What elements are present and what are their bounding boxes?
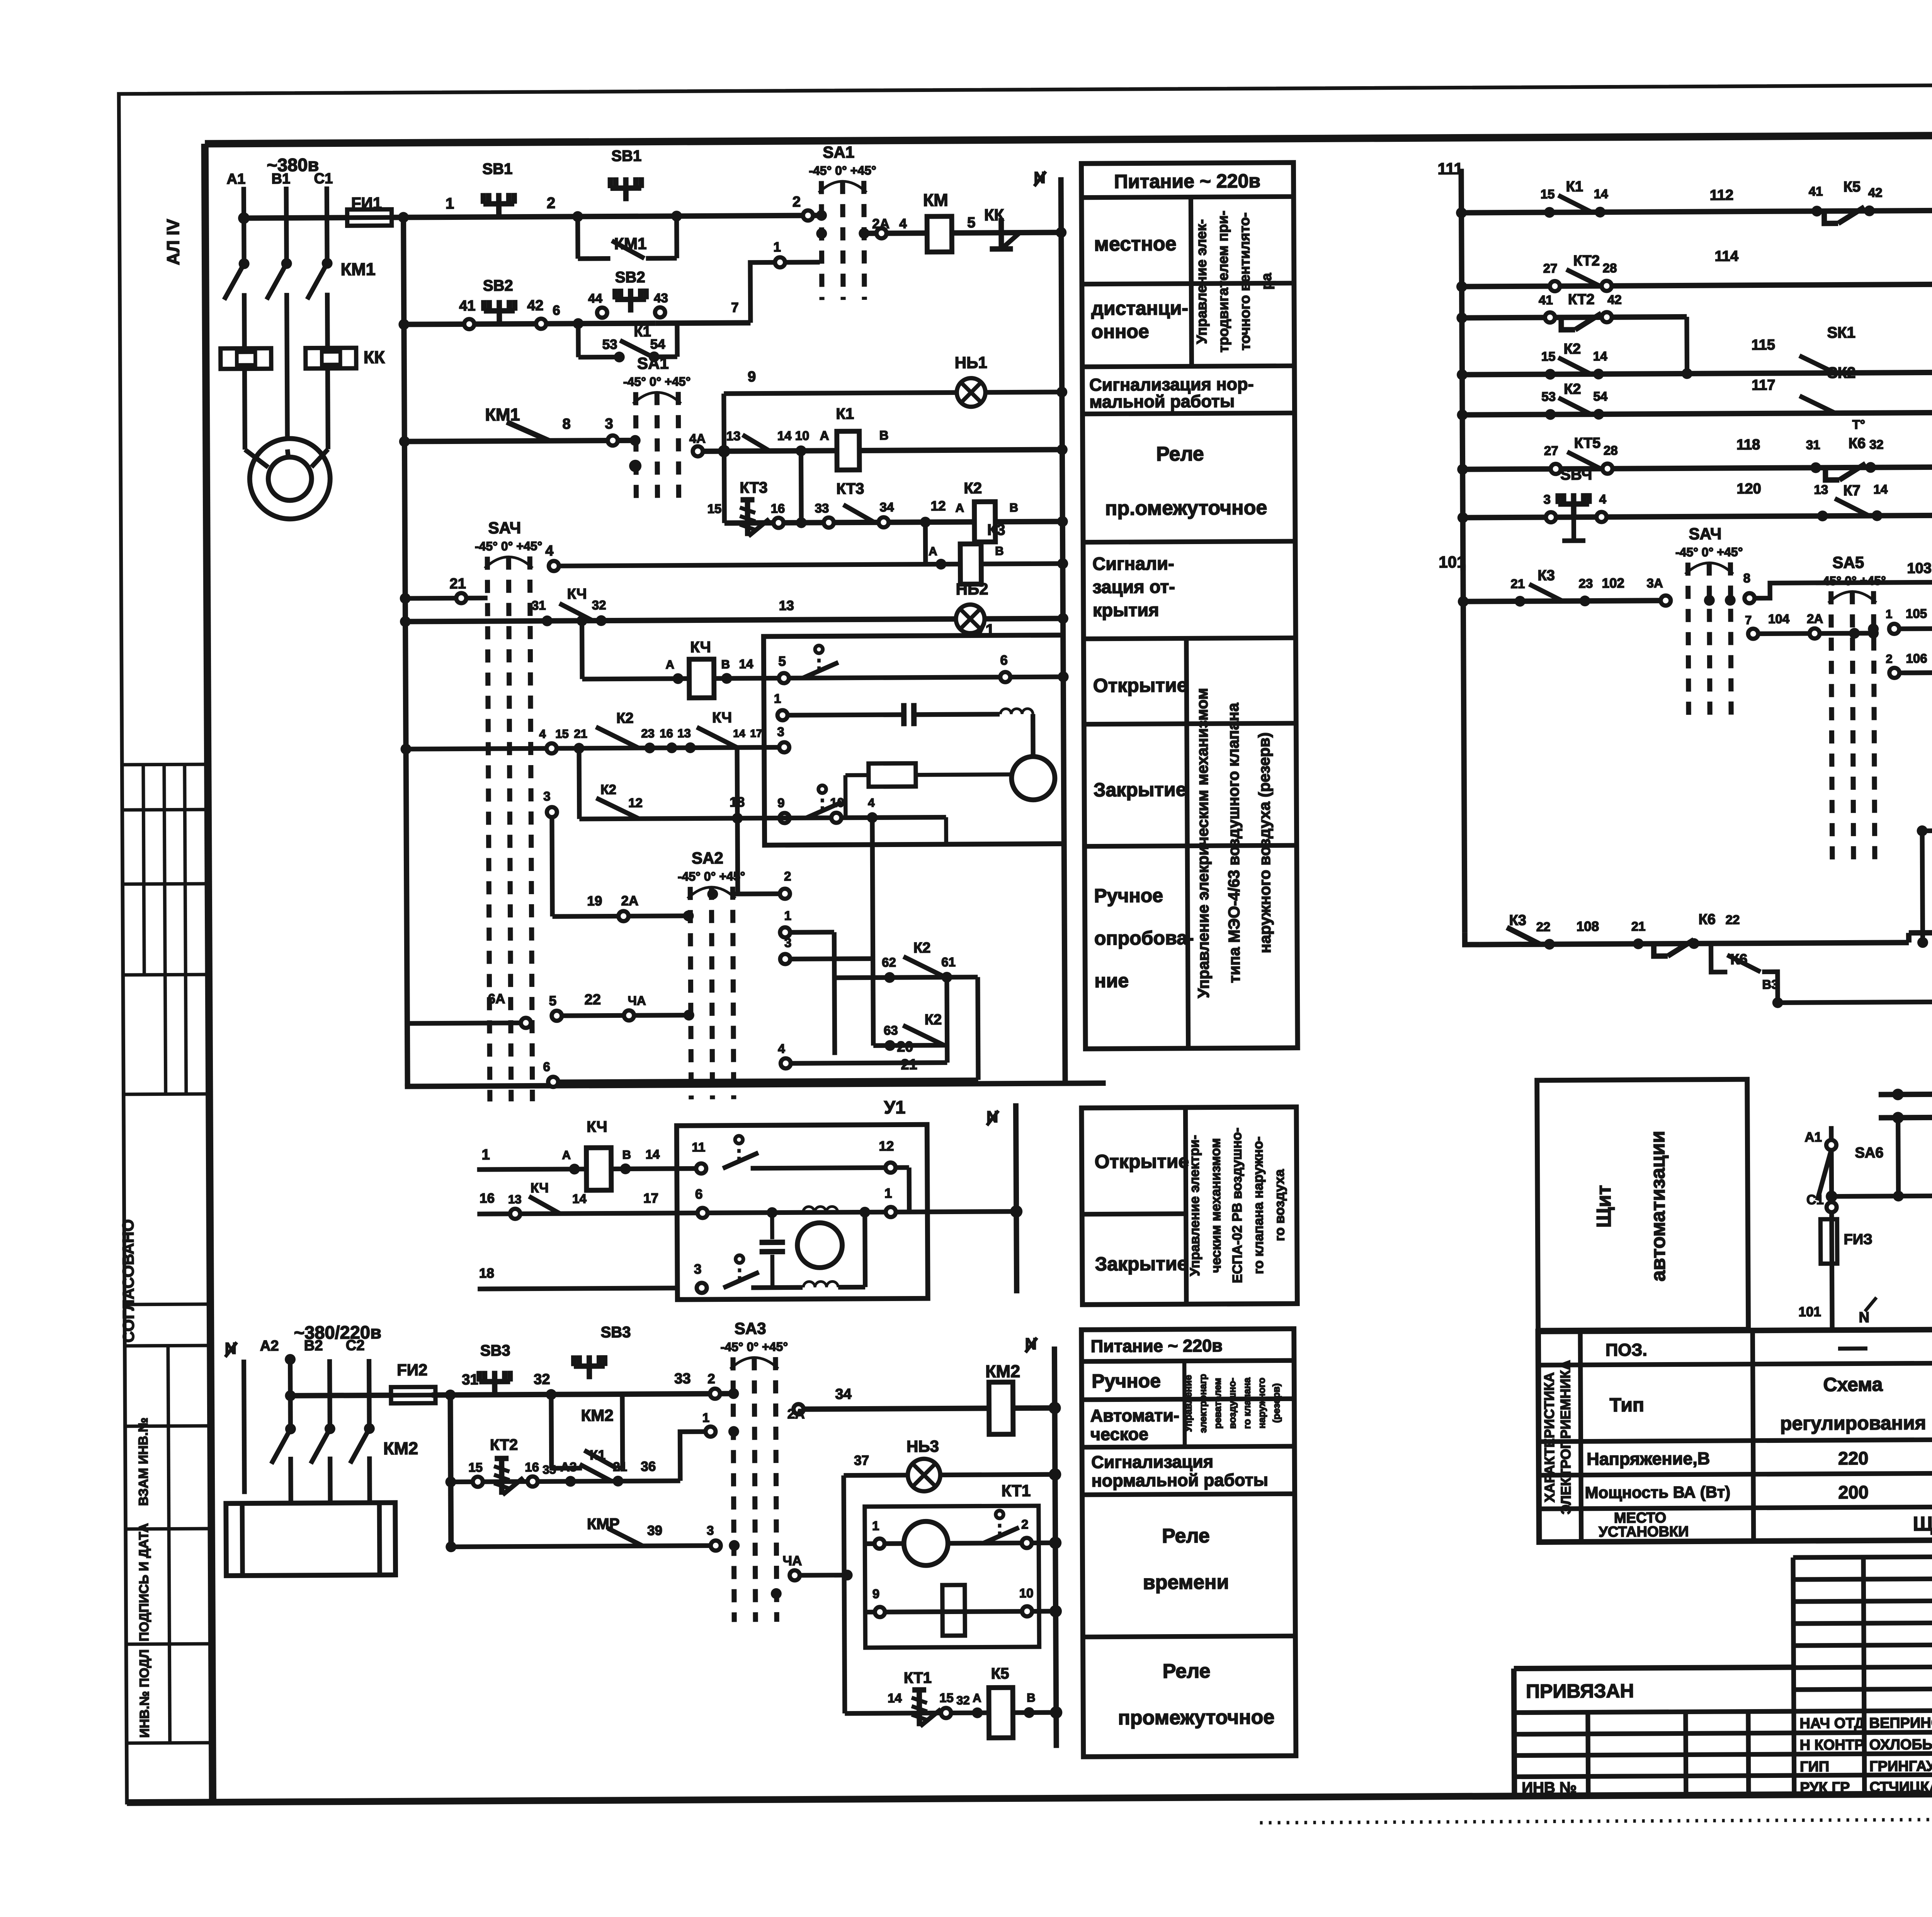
svg-text:ние: ние bbox=[1094, 970, 1129, 992]
svg-text:ческим механизмом: ческим механизмом bbox=[1208, 1138, 1224, 1273]
svg-text:12: 12 bbox=[879, 1139, 894, 1154]
svg-text:ОХЛОБЫСТИН: ОХЛОБЫСТИН bbox=[1869, 1736, 1932, 1753]
svg-text:А: А bbox=[665, 658, 674, 671]
svg-text:С1: С1 bbox=[1806, 1192, 1824, 1207]
svg-text:К6: К6 bbox=[1730, 951, 1748, 968]
svg-text:42: 42 bbox=[1607, 293, 1622, 307]
svg-text:44: 44 bbox=[588, 291, 603, 305]
svg-text:1: 1 bbox=[884, 1186, 892, 1201]
svg-text:-45° 0° +45°: -45° 0° +45° bbox=[1818, 573, 1886, 588]
svg-text:1: 1 bbox=[872, 1519, 879, 1533]
svg-text:1: 1 bbox=[481, 1147, 490, 1163]
svg-text:электронагр: электронагр bbox=[1197, 1374, 1209, 1433]
svg-text:22: 22 bbox=[585, 992, 601, 1008]
svg-text:112: 112 bbox=[1710, 187, 1734, 203]
svg-text:32: 32 bbox=[956, 1694, 970, 1707]
svg-text:К3: К3 bbox=[987, 521, 1005, 538]
svg-text:2: 2 bbox=[793, 194, 801, 210]
svg-text:18: 18 bbox=[479, 1266, 494, 1281]
svg-text:14: 14 bbox=[733, 727, 745, 739]
svg-text:воздушно-: воздушно- bbox=[1227, 1378, 1238, 1429]
svg-text:ХАРАКТЕРИСТИКА: ХАРАКТЕРИСТИКА bbox=[1541, 1372, 1558, 1502]
svg-text:111: 111 bbox=[1437, 160, 1463, 178]
svg-text:11: 11 bbox=[692, 1140, 705, 1154]
svg-text:дистанци-: дистанци- bbox=[1091, 297, 1188, 319]
svg-text:2А: 2А bbox=[621, 893, 638, 908]
svg-text:местное: местное bbox=[1094, 233, 1176, 255]
svg-text:31: 31 bbox=[1806, 437, 1820, 452]
svg-text:К2: К2 bbox=[1564, 381, 1581, 397]
svg-text:15: 15 bbox=[555, 727, 569, 741]
svg-text:-45° 0° +45°: -45° 0° +45° bbox=[475, 539, 543, 553]
svg-text:КТ3: КТ3 bbox=[740, 479, 767, 496]
svg-text:15: 15 bbox=[468, 1460, 483, 1475]
svg-text:ИНВ.№ ПОДЛ: ИНВ.№ ПОДЛ bbox=[137, 1649, 152, 1738]
svg-text:пр.омежуточное: пр.омежуточное bbox=[1105, 497, 1267, 520]
svg-text:FИЗ: FИЗ bbox=[1844, 1232, 1872, 1248]
svg-text:1: 1 bbox=[774, 691, 781, 706]
svg-text:3: 3 bbox=[694, 1262, 702, 1277]
svg-text:Реле: Реле bbox=[1156, 443, 1204, 466]
svg-text:А1: А1 bbox=[227, 171, 246, 187]
svg-text:крытия: крытия bbox=[1093, 599, 1159, 620]
svg-text:8: 8 bbox=[1743, 571, 1750, 585]
svg-text:2: 2 bbox=[707, 1371, 715, 1386]
svg-text:го воздуха: го воздуха bbox=[1272, 1169, 1287, 1241]
svg-text:106: 106 bbox=[1906, 651, 1927, 665]
svg-text:15: 15 bbox=[707, 502, 722, 516]
svg-text:13: 13 bbox=[779, 598, 794, 613]
svg-text:2: 2 bbox=[1886, 652, 1892, 665]
svg-text:УСТАНОВКИ: УСТАНОВКИ bbox=[1599, 1524, 1689, 1540]
svg-text:114: 114 bbox=[1714, 248, 1738, 264]
svg-text:4: 4 bbox=[868, 796, 875, 810]
svg-text:9: 9 bbox=[872, 1587, 880, 1601]
svg-text:101: 101 bbox=[1798, 1304, 1821, 1319]
svg-text:16: 16 bbox=[525, 1460, 539, 1474]
svg-text:4: 4 bbox=[899, 216, 907, 231]
svg-text:наружного: наружного bbox=[1256, 1378, 1267, 1429]
svg-text:12: 12 bbox=[931, 498, 946, 514]
svg-text:41: 41 bbox=[459, 298, 475, 314]
svg-text:14: 14 bbox=[1873, 482, 1888, 496]
svg-text:К5: К5 bbox=[991, 1665, 1009, 1682]
svg-text:В2: В2 bbox=[304, 1338, 323, 1354]
svg-text:ГРИНГАУЗ: ГРИНГАУЗ bbox=[1869, 1758, 1932, 1775]
svg-text:Тип: Тип bbox=[1609, 1394, 1644, 1415]
svg-text:16: 16 bbox=[480, 1191, 495, 1206]
svg-text:А: А bbox=[956, 501, 964, 515]
svg-text:17: 17 bbox=[750, 727, 762, 739]
svg-text:13: 13 bbox=[677, 726, 691, 740]
svg-text:9: 9 bbox=[748, 369, 756, 385]
svg-text:115: 115 bbox=[1752, 337, 1776, 353]
svg-text:В: В bbox=[1027, 1691, 1036, 1704]
svg-text:200: 200 bbox=[1838, 1482, 1869, 1502]
svg-text:SА3: SА3 bbox=[735, 1319, 766, 1337]
svg-text:Схема: Схема bbox=[1823, 1374, 1883, 1396]
svg-text:SК1: SК1 bbox=[1827, 324, 1855, 341]
svg-text:промежуточное: промежуточное bbox=[1118, 1706, 1274, 1729]
svg-text:А3: А3 bbox=[560, 1459, 577, 1474]
svg-text:19: 19 bbox=[587, 893, 602, 908]
svg-text:КЧ: КЧ bbox=[531, 1180, 549, 1196]
svg-text:КМ1: КМ1 bbox=[614, 235, 646, 253]
svg-text:КЧ: КЧ bbox=[587, 1118, 607, 1135]
svg-text:К6: К6 bbox=[1849, 435, 1866, 452]
svg-text:ЕСПА-02 РВ воздушно-: ЕСПА-02 РВ воздушно- bbox=[1229, 1128, 1245, 1283]
svg-text:КК: КК bbox=[364, 347, 385, 367]
svg-text:4А: 4А bbox=[689, 431, 706, 446]
svg-text:17: 17 bbox=[643, 1191, 658, 1206]
svg-text:НЬ1: НЬ1 bbox=[955, 353, 987, 371]
svg-text:34: 34 bbox=[880, 500, 895, 514]
svg-text:3: 3 bbox=[784, 936, 792, 950]
svg-text:СТЧИЦКАЯ: СТЧИЦКАЯ bbox=[1869, 1779, 1932, 1796]
svg-text:N: N bbox=[1859, 1310, 1869, 1326]
svg-text:Открытие: Открытие bbox=[1094, 1150, 1189, 1172]
svg-text:42: 42 bbox=[1868, 185, 1883, 200]
svg-text:13: 13 bbox=[508, 1192, 522, 1206]
svg-text:НЬ3: НЬ3 bbox=[906, 1437, 939, 1455]
svg-text:53: 53 bbox=[1541, 390, 1556, 404]
svg-text:В: В bbox=[622, 1148, 631, 1162]
svg-text:КТ3: КТ3 bbox=[836, 480, 864, 497]
svg-text:К2: К2 bbox=[616, 710, 634, 726]
svg-text:2: 2 bbox=[547, 195, 555, 212]
svg-text:105: 105 bbox=[1906, 606, 1927, 621]
svg-text:ВЗАМ ИНВ.№: ВЗАМ ИНВ.№ bbox=[136, 1417, 151, 1506]
svg-text:3: 3 bbox=[1543, 492, 1551, 507]
svg-text:SВ1: SВ1 bbox=[611, 148, 641, 165]
svg-text:14: 14 bbox=[888, 1691, 902, 1705]
svg-text:104: 104 bbox=[1768, 612, 1790, 626]
svg-text:6: 6 bbox=[543, 1060, 550, 1074]
svg-text:7: 7 bbox=[1745, 613, 1752, 627]
svg-text:21: 21 bbox=[1631, 919, 1646, 933]
svg-text:КМ2: КМ2 bbox=[985, 1361, 1020, 1381]
svg-text:регулирования: регулирования bbox=[1780, 1412, 1926, 1434]
svg-text:3: 3 bbox=[605, 416, 613, 432]
svg-text:КМ: КМ bbox=[923, 190, 948, 210]
svg-text:54: 54 bbox=[650, 337, 666, 352]
svg-text:14: 14 bbox=[777, 429, 792, 443]
svg-text:2А: 2А bbox=[787, 1407, 805, 1422]
svg-text:7: 7 bbox=[731, 300, 739, 315]
svg-text:101: 101 bbox=[1439, 553, 1466, 571]
svg-text:В: В bbox=[995, 544, 1004, 558]
svg-text:SАЧ: SАЧ bbox=[1689, 524, 1722, 543]
svg-text:SА1: SА1 bbox=[637, 354, 669, 372]
svg-text:21: 21 bbox=[449, 576, 466, 592]
svg-text:34: 34 bbox=[835, 1386, 851, 1402]
svg-text:31: 31 bbox=[462, 1372, 478, 1388]
svg-text:Управление: Управление bbox=[1183, 1375, 1194, 1432]
svg-text:63: 63 bbox=[884, 1023, 898, 1038]
svg-text:го клапана: го клапана bbox=[1242, 1377, 1253, 1429]
svg-text:13: 13 bbox=[726, 429, 741, 443]
svg-text:К3: К3 bbox=[1509, 912, 1527, 929]
svg-text:-45° 0° +45°: -45° 0° +45° bbox=[1675, 545, 1743, 559]
svg-text:КТ1: КТ1 bbox=[904, 1669, 932, 1686]
svg-text:33: 33 bbox=[674, 1371, 690, 1387]
svg-text:36: 36 bbox=[641, 1459, 656, 1474]
svg-text:Т°: Т° bbox=[1852, 417, 1866, 432]
svg-text:С1: С1 bbox=[314, 170, 333, 187]
svg-text:РУК ГР: РУК ГР bbox=[1800, 1779, 1850, 1796]
svg-text:К1: К1 bbox=[1566, 179, 1583, 195]
svg-text:Управление элекрическим механ: Управление элекрическим механизмом bbox=[1193, 688, 1213, 998]
svg-text:35: 35 bbox=[543, 1463, 556, 1476]
svg-text:23: 23 bbox=[641, 727, 655, 740]
svg-text:108: 108 bbox=[1577, 919, 1599, 934]
svg-text:Щит: Щит bbox=[1593, 1185, 1616, 1228]
svg-text:ревателем: ревателем bbox=[1212, 1378, 1223, 1429]
svg-text:3А: 3А bbox=[1646, 576, 1663, 590]
svg-text:SК2: SК2 bbox=[1827, 364, 1856, 381]
svg-text:103: 103 bbox=[1907, 560, 1932, 577]
svg-text:4: 4 bbox=[1599, 492, 1606, 506]
svg-text:КЧ: КЧ bbox=[690, 639, 711, 656]
svg-text:14: 14 bbox=[645, 1147, 660, 1161]
svg-text:тродвигателем при-: тродвигателем при- bbox=[1215, 211, 1231, 352]
svg-text:КЧ: КЧ bbox=[567, 586, 587, 602]
svg-text:В: В bbox=[879, 428, 889, 442]
svg-text:В3: В3 bbox=[1762, 977, 1778, 992]
svg-text:32: 32 bbox=[1869, 437, 1884, 452]
svg-text:20: 20 bbox=[897, 1039, 913, 1055]
svg-text:ГИП: ГИП bbox=[1800, 1759, 1829, 1775]
svg-text:ческое: ческое bbox=[1090, 1424, 1148, 1444]
svg-text:КМ2: КМ2 bbox=[581, 1406, 614, 1424]
svg-text:ПРИВЯЗАН: ПРИВЯЗАН bbox=[1526, 1680, 1634, 1702]
svg-text:14: 14 bbox=[572, 1191, 587, 1206]
svg-text:К2: К2 bbox=[600, 782, 616, 797]
svg-text:6: 6 bbox=[553, 303, 560, 318]
svg-text:SА5: SА5 bbox=[1832, 553, 1864, 572]
svg-text:2: 2 bbox=[1021, 1517, 1029, 1531]
svg-text:6А: 6А bbox=[488, 991, 505, 1006]
svg-text:(резерв): (резерв) bbox=[1271, 1383, 1282, 1423]
svg-text:мальной работы: мальной работы bbox=[1089, 391, 1235, 412]
svg-text:28: 28 bbox=[1603, 261, 1617, 275]
svg-text:КТ2: КТ2 bbox=[1573, 253, 1600, 269]
svg-text:3: 3 bbox=[543, 789, 551, 803]
svg-text:15: 15 bbox=[939, 1691, 954, 1705]
svg-text:Автомати-: Автомати- bbox=[1090, 1405, 1180, 1425]
svg-text:К2: К2 bbox=[964, 480, 982, 497]
svg-text:КЧ: КЧ bbox=[712, 710, 732, 726]
svg-text:А: А bbox=[973, 1691, 981, 1705]
svg-text:К1: К1 bbox=[836, 405, 854, 422]
svg-text:3: 3 bbox=[707, 1523, 714, 1538]
svg-text:6: 6 bbox=[1000, 653, 1008, 668]
svg-text:Реле: Реле bbox=[1163, 1660, 1211, 1683]
svg-text:Ручное: Ручное bbox=[1094, 885, 1163, 907]
svg-text:1: 1 bbox=[1886, 607, 1892, 621]
svg-text:1: 1 bbox=[784, 908, 792, 923]
svg-text:61: 61 bbox=[941, 955, 956, 969]
svg-text:У1: У1 bbox=[884, 1097, 906, 1117]
svg-text:37: 37 bbox=[854, 1453, 869, 1468]
svg-text:10: 10 bbox=[830, 795, 844, 810]
svg-text:21: 21 bbox=[1510, 577, 1525, 591]
svg-text:15: 15 bbox=[1541, 187, 1555, 201]
svg-text:Управление электри-: Управление электри- bbox=[1187, 1135, 1202, 1276]
svg-text:-45° 0° +45°: -45° 0° +45° bbox=[721, 1340, 788, 1354]
svg-text:32: 32 bbox=[534, 1371, 550, 1388]
svg-text:SВ3: SВ3 bbox=[480, 1342, 510, 1359]
svg-text:К7: К7 bbox=[1843, 483, 1861, 499]
svg-text:зация от-: зация от- bbox=[1092, 576, 1175, 597]
svg-text:А1: А1 bbox=[1804, 1129, 1822, 1145]
svg-text:Питание ~ 220в: Питание ~ 220в bbox=[1114, 170, 1260, 192]
svg-text:2А: 2А bbox=[1807, 611, 1823, 626]
svg-text:SВ3: SВ3 bbox=[601, 1324, 631, 1341]
svg-text:Сигнализация: Сигнализация bbox=[1091, 1452, 1213, 1472]
svg-text:4: 4 bbox=[778, 1041, 785, 1056]
svg-text:ЩИТ АВТОМАТИЗАЦИИ: ЩИТ АВТОМАТИЗАЦИИ bbox=[1913, 1512, 1932, 1535]
svg-text:СОГЛАСОВАНО: СОГЛАСОВАНО bbox=[119, 1219, 138, 1342]
svg-text:16: 16 bbox=[771, 501, 785, 515]
svg-text:5: 5 bbox=[778, 654, 786, 669]
svg-text:220: 220 bbox=[1838, 1448, 1869, 1468]
svg-text:К2: К2 bbox=[925, 1012, 942, 1028]
svg-text:Сигнали-: Сигнали- bbox=[1092, 553, 1174, 574]
svg-text:1: 1 bbox=[446, 195, 454, 212]
svg-text:НЬ2: НЬ2 bbox=[956, 580, 988, 598]
svg-text:21: 21 bbox=[613, 1459, 627, 1474]
svg-text:39: 39 bbox=[647, 1523, 662, 1538]
svg-text:Н КОНТР: Н КОНТР bbox=[1800, 1737, 1864, 1754]
svg-text:102: 102 bbox=[1602, 576, 1624, 591]
svg-text:14: 14 bbox=[1593, 349, 1608, 363]
svg-text:117: 117 bbox=[1752, 377, 1776, 393]
svg-text:наружного воздуха (резерв): наружного воздуха (резерв) bbox=[1255, 732, 1274, 953]
svg-text:автоматизации: автоматизации bbox=[1646, 1131, 1670, 1281]
svg-text:-45° 0° +45°: -45° 0° +45° bbox=[809, 163, 876, 178]
svg-text:2: 2 bbox=[784, 869, 791, 883]
svg-text:ЧА: ЧА bbox=[782, 1553, 802, 1568]
svg-text:SВ2: SВ2 bbox=[615, 269, 645, 286]
svg-text:14: 14 bbox=[739, 657, 753, 671]
svg-text:42: 42 bbox=[527, 298, 543, 314]
svg-text:41: 41 bbox=[1539, 293, 1553, 307]
svg-text:КТ2: КТ2 bbox=[490, 1436, 518, 1453]
svg-text:ПОЗ.: ПОЗ. bbox=[1605, 1340, 1647, 1360]
svg-text:КТ1: КТ1 bbox=[1002, 1482, 1031, 1500]
svg-text:К3: К3 bbox=[1537, 568, 1555, 584]
svg-text:Питание ~ 220в: Питание ~ 220в bbox=[1091, 1336, 1223, 1356]
svg-text:А: А bbox=[562, 1148, 571, 1162]
svg-text:ЧА: ЧА bbox=[628, 993, 646, 1008]
svg-text:С2: С2 bbox=[346, 1337, 365, 1354]
svg-text:120: 120 bbox=[1736, 481, 1761, 497]
svg-text:Напряжение,В: Напряжение,В bbox=[1587, 1449, 1710, 1469]
svg-text:Закрытие: Закрытие bbox=[1095, 1253, 1188, 1275]
svg-text:9: 9 bbox=[777, 796, 785, 810]
svg-text:SА1: SА1 bbox=[823, 143, 854, 161]
svg-text:КТ5: КТ5 bbox=[1574, 435, 1601, 451]
svg-text:1: 1 bbox=[702, 1410, 710, 1425]
svg-text:3: 3 bbox=[777, 725, 784, 739]
svg-text:4: 4 bbox=[545, 543, 553, 559]
svg-text:опробова-: опробова- bbox=[1094, 927, 1194, 949]
svg-text:SВ1: SВ1 bbox=[482, 160, 512, 177]
svg-text:нормальной работы: нормальной работы bbox=[1091, 1470, 1268, 1490]
svg-text:АЛ IV: АЛ IV bbox=[163, 219, 183, 265]
svg-text:ЭЛЕКТРОПРИЕМНИКА: ЭЛЕКТРОПРИЕМНИКА bbox=[1557, 1360, 1574, 1515]
svg-text:Управление элек-: Управление элек- bbox=[1193, 219, 1210, 344]
svg-text:онное: онное bbox=[1091, 320, 1149, 342]
svg-text:15: 15 bbox=[1541, 349, 1556, 364]
svg-text:Реле: Реле bbox=[1162, 1525, 1210, 1548]
svg-text:10: 10 bbox=[795, 429, 810, 443]
svg-text:ИНВ №: ИНВ № bbox=[1522, 1779, 1577, 1796]
svg-text:Мощность ВА (Вт): Мощность ВА (Вт) bbox=[1585, 1483, 1731, 1502]
svg-text:К1: К1 bbox=[634, 324, 651, 340]
svg-text:33: 33 bbox=[815, 501, 829, 515]
svg-text:10: 10 bbox=[1019, 1586, 1034, 1600]
svg-text:1: 1 bbox=[773, 240, 781, 255]
svg-text:времени: времени bbox=[1143, 1571, 1229, 1594]
svg-text:Открытие: Открытие bbox=[1093, 674, 1188, 696]
svg-text:SВ2: SВ2 bbox=[483, 277, 513, 294]
svg-text:FИ1: FИ1 bbox=[351, 194, 382, 212]
svg-text:5: 5 bbox=[549, 993, 557, 1009]
svg-text:ВЕПРИНСКИЙ: ВЕПРИНСКИЙ bbox=[1869, 1713, 1932, 1731]
svg-text:КМ1: КМ1 bbox=[485, 405, 520, 424]
svg-text:21: 21 bbox=[574, 727, 587, 740]
svg-text:21: 21 bbox=[901, 1056, 917, 1073]
svg-text:А: А bbox=[929, 544, 937, 558]
svg-text:SА2: SА2 bbox=[692, 849, 723, 867]
svg-text:27: 27 bbox=[1543, 261, 1558, 275]
svg-text:32: 32 bbox=[592, 598, 606, 612]
svg-text:2А: 2А bbox=[872, 216, 889, 231]
svg-text:43: 43 bbox=[654, 291, 668, 305]
svg-text:КМ1: КМ1 bbox=[341, 259, 376, 279]
svg-text:118: 118 bbox=[1736, 437, 1760, 453]
svg-text:-45° 0° +45°: -45° 0° +45° bbox=[678, 869, 745, 883]
svg-text:К2: К2 bbox=[1564, 341, 1581, 357]
svg-text:В1: В1 bbox=[272, 171, 291, 187]
svg-text:41: 41 bbox=[1809, 184, 1823, 198]
svg-text:14: 14 bbox=[1594, 187, 1609, 201]
svg-text:А2: А2 bbox=[260, 1338, 279, 1354]
svg-text:ПОДПИСЬ И ДАТА: ПОДПИСЬ И ДАТА bbox=[136, 1523, 151, 1641]
svg-text:SА6: SА6 bbox=[1855, 1145, 1883, 1161]
svg-text:53: 53 bbox=[602, 337, 617, 352]
svg-text:точного вентилято-: точного вентилято- bbox=[1236, 213, 1253, 350]
svg-text:27: 27 bbox=[1544, 443, 1558, 458]
svg-text:SВЧ: SВЧ bbox=[1560, 466, 1592, 483]
svg-text:12: 12 bbox=[628, 796, 643, 810]
svg-text:22: 22 bbox=[1726, 912, 1740, 927]
svg-text:К2: К2 bbox=[913, 940, 931, 956]
svg-text:54: 54 bbox=[1593, 389, 1608, 403]
svg-text:4: 4 bbox=[539, 727, 546, 741]
svg-text:КМ2: КМ2 bbox=[383, 1438, 418, 1458]
svg-text:НАЧ ОТД: НАЧ ОТД bbox=[1799, 1715, 1864, 1732]
svg-text:ра: ра bbox=[1259, 273, 1274, 290]
svg-text:В: В bbox=[721, 658, 730, 671]
svg-text:5: 5 bbox=[967, 215, 975, 231]
svg-text:Закрытие: Закрытие bbox=[1094, 779, 1187, 801]
svg-text:КТ2: КТ2 bbox=[1568, 291, 1595, 308]
svg-text:13: 13 bbox=[1814, 482, 1828, 497]
svg-text:го клапана наружно-: го клапана наружно- bbox=[1250, 1136, 1266, 1274]
